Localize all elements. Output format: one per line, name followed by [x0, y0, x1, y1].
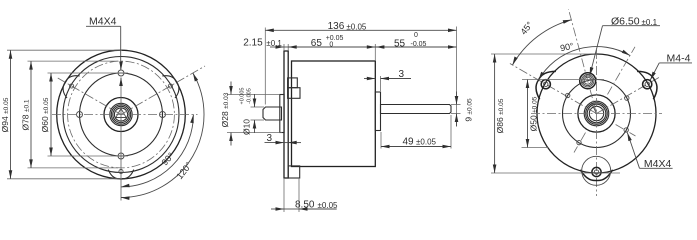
extension ticks shaft end	[451, 105, 461, 114]
extension lines Ø86	[491, 54, 620, 173]
extension line 49 left	[380, 132, 382, 149]
svg-text:Ø50 ±0.05: Ø50 ±0.05	[529, 96, 539, 131]
rear view M4 hole lower-right	[624, 128, 628, 132]
dimension 136	[265, 21, 456, 32]
left view bolt circle Ø78 dash-dot	[68, 61, 175, 168]
dimension 90deg arc rear	[539, 41, 631, 80]
svg-text:8.50: 8.50	[295, 200, 315, 211]
extension line rear boss	[380, 76, 382, 91]
svg-text:±0.05: ±0.05	[346, 22, 367, 31]
dimension 9	[455, 92, 474, 127]
label M4-4	[650, 53, 692, 81]
side view rear boss	[375, 92, 380, 131]
left view M4 hole left	[77, 112, 83, 118]
left view ear upper-right	[162, 76, 179, 98]
left view radial centerline 30deg	[121, 66, 205, 115]
rear view body circle Ø86	[537, 54, 656, 173]
extension line shaft end right	[456, 27, 458, 127]
dimension 55	[375, 32, 456, 50]
left view M4 hole top	[118, 70, 124, 76]
extension lines Ø50	[522, 80, 605, 148]
left view horizontal centerline	[52, 114, 198, 116]
dimension 2.15	[243, 38, 288, 49]
svg-text:136: 136	[328, 21, 345, 32]
rear view ear bottom	[580, 156, 612, 185]
extension lines Ø28	[227, 95, 282, 133]
dimension 65	[288, 35, 375, 49]
svg-text:Ø78 ±0.1: Ø78 ±0.1	[21, 99, 31, 130]
dimension Ø10	[240, 88, 257, 136]
extension line body top right	[374, 44, 376, 60]
left view shaft flat triangle	[116, 109, 126, 118]
left view shaft rings	[110, 103, 132, 125]
dimension 49	[381, 136, 451, 148]
rear view radial 150deg	[510, 64, 597, 114]
rear view M4 hole upper-left	[566, 93, 570, 97]
svg-text:9 ±0.05: 9 ±0.05	[464, 98, 474, 122]
left view M4 hole bottom	[118, 153, 124, 159]
rear view circle Ø50	[563, 80, 631, 148]
svg-text:+0.005: +0.005	[240, 88, 246, 105]
extension line 49 right	[450, 115, 452, 149]
left view flange outer circle Ø94	[57, 50, 186, 179]
rear view M4 hole upper-right	[625, 96, 629, 100]
label Ø94	[0, 97, 10, 132]
label Ø78	[21, 99, 31, 130]
svg-text:55: 55	[394, 39, 406, 50]
dimension Ø60 line	[49, 73, 53, 156]
dimension 45deg arc	[513, 19, 572, 65]
svg-text:-0.005: -0.005	[247, 88, 253, 104]
rear view boss circle	[578, 95, 615, 132]
left view ear upper-left	[63, 76, 80, 98]
dimension 8.50	[271, 200, 338, 211]
rear view radial 30deg	[597, 78, 659, 114]
rear view shaft rings	[584, 101, 609, 126]
svg-text:-0.05: -0.05	[411, 41, 427, 48]
label M4X4 rear	[627, 133, 672, 171]
svg-text:±0.05: ±0.05	[416, 138, 437, 147]
rear view radial 60deg	[608, 47, 636, 95]
svg-text:45°: 45°	[519, 19, 536, 36]
rear view radial 105deg	[569, 9, 597, 113]
svg-text:3: 3	[399, 69, 405, 80]
extension lines 8.50	[284, 178, 299, 212]
svg-text:Ø94 ±0.05: Ø94 ±0.05	[0, 97, 10, 132]
svg-text:Ø28 ±0.03: Ø28 ±0.03	[220, 92, 230, 127]
rear view Ø6.50 hole	[580, 73, 596, 89]
dimension Ø28	[220, 82, 233, 146]
dimension Ø78 extension lines	[28, 61, 119, 168]
rear view M4 hole lower-left	[577, 140, 581, 144]
dimension Ø50	[526, 80, 539, 148]
label Ø6.50	[590, 16, 660, 76]
svg-text:Ø60 ±0.05: Ø60 ±0.05	[40, 97, 50, 132]
svg-text:Ø10: Ø10	[242, 119, 252, 135]
side view flange plate	[284, 51, 288, 178]
dimension Ø60 extension lines	[48, 73, 129, 156]
dimension Ø94 extension lines	[7, 50, 122, 179]
rear view ear upper-right	[637, 71, 657, 99]
dimension Ø78 line	[29, 61, 33, 168]
dimension Ø94 line	[9, 50, 13, 179]
label M4X4 front holes	[86, 16, 123, 87]
rear view radial 330deg	[616, 125, 636, 137]
dimension 120deg arc	[121, 73, 204, 200]
svg-text:2.15: 2.15	[243, 38, 263, 49]
left view ear bottom	[108, 169, 133, 179]
side view body	[292, 61, 376, 167]
svg-text:±0.05: ±0.05	[318, 201, 339, 210]
left view M4 hole right	[160, 112, 166, 118]
side view front shaft Ø10	[263, 107, 282, 120]
dimension 90deg arc	[121, 115, 194, 188]
svg-text:M4X4: M4X4	[89, 16, 117, 28]
svg-text:0: 0	[329, 41, 333, 48]
svg-text:0: 0	[414, 32, 418, 39]
rear view ear upper-left	[536, 71, 556, 99]
left view body circle Ø86	[63, 57, 179, 173]
side view front boss Ø28	[280, 95, 284, 133]
rear view vertical centerline	[596, 50, 598, 196]
dimension 3 flange	[265, 133, 302, 144]
side view lower ear tab	[288, 166, 300, 178]
side view rear shaft Ø9	[381, 105, 452, 114]
dimension Ø86	[493, 54, 505, 173]
svg-text:49: 49	[403, 136, 415, 147]
left view vertical centerline	[120, 85, 122, 201]
left view radial centerline 150deg	[56, 77, 121, 115]
extension lines Ø10	[251, 107, 265, 120]
left view circle Ø60	[80, 73, 163, 156]
extension line left stub	[264, 28, 266, 105]
dimension 3 rear	[364, 69, 411, 80]
side view upper ear tab	[288, 78, 300, 98]
rear view shaft pointer	[591, 102, 597, 114]
label Ø60	[40, 97, 50, 132]
svg-text:90°: 90°	[559, 41, 575, 54]
svg-text:Ø86 ±0.05: Ø86 ±0.05	[495, 98, 505, 133]
svg-text:120°: 120°	[174, 160, 194, 181]
rear view radial 240deg	[574, 133, 586, 153]
svg-text:+0.05: +0.05	[326, 35, 344, 42]
svg-text:65: 65	[311, 38, 323, 49]
rear view horizontal centerline	[531, 113, 662, 115]
extension lines flange top	[284, 44, 288, 51]
left view boss circle Ø28	[104, 98, 138, 132]
